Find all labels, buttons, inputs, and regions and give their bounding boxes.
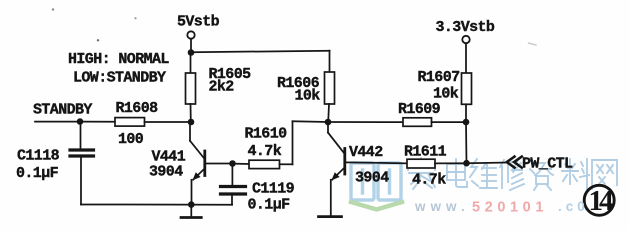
- PW_CTL input chevrons: [507, 157, 522, 168]
- svg-text:STANDBY: STANDBY: [33, 101, 92, 118]
- watermark circled 14: [584, 185, 614, 215]
- svg-text:R1609: R1609: [398, 101, 441, 118]
- wire STANDBY line: [35, 121, 80, 123]
- node A (5V rail junction): [188, 49, 195, 56]
- svg-text:520101: 520101: [472, 200, 548, 216]
- node STANDBY junction: [77, 118, 84, 125]
- wire 5V top rail: [191, 51, 330, 53]
- svg-text:3904: 3904: [149, 164, 183, 181]
- resistor R1610: [233, 121, 329, 168]
- resistor R1609: [403, 118, 432, 127]
- svg-text:V442: V442: [349, 144, 383, 161]
- svg-text:14: 14: [589, 185, 614, 217]
- svg-text:3904: 3904: [355, 169, 389, 186]
- resistor R1605: [186, 53, 196, 123]
- watermark char 资: [530, 161, 553, 190]
- svg-text:R1610: R1610: [245, 126, 288, 143]
- resistor R1611: [407, 159, 467, 168]
- power terminal 5Vstb: [187, 31, 194, 52]
- watermark char 维: [470, 159, 497, 188]
- watermark logo open book: [351, 163, 401, 200]
- svg-text:4.7k: 4.7k: [248, 143, 282, 160]
- svg-text:2k2: 2k2: [209, 79, 235, 96]
- scan speck 4: [52, 8, 54, 10]
- resistor R1607: [462, 73, 472, 122]
- watermark char 网: [592, 160, 617, 189]
- wire STANDBY junction to R1608: [80, 121, 115, 123]
- svg-text:C1119: C1119: [252, 181, 295, 198]
- wire E1 to E2: [465, 122, 468, 163]
- watermark char 修: [500, 160, 524, 190]
- capacitor C1119: [221, 164, 246, 205]
- svg-text:0.1μF: 0.1μF: [248, 197, 291, 214]
- capacitor C1118: [70, 122, 94, 205]
- node B (V441 collector): [188, 119, 195, 126]
- ground (V441): [181, 205, 201, 218]
- resistor R1608: [115, 118, 145, 127]
- node C (V441 base / C1119): [229, 160, 236, 167]
- svg-text:3.3Vstb: 3.3Vstb: [436, 19, 495, 36]
- wire bottom rail: [81, 204, 232, 206]
- ground (V442): [319, 215, 342, 218]
- svg-text:.c0: .c0: [558, 199, 589, 214]
- watermark logo green swoosh: [351, 202, 402, 210]
- svg-text:HIGH: NORMAL: HIGH: NORMAL: [68, 51, 169, 68]
- scan speck 1: [529, 43, 537, 45]
- scan speck 2: [97, 39, 99, 41]
- node E1 (R1607/R1609): [463, 119, 470, 126]
- transistor V442: [328, 122, 345, 216]
- resistor R1606: [325, 51, 335, 122]
- node emitter/rail junction: [188, 201, 195, 208]
- svg-text:5Vstb: 5Vstb: [177, 14, 220, 31]
- svg-text:100: 100: [118, 131, 144, 148]
- wire PW_CTL: [467, 162, 509, 165]
- wire V442 base: [346, 161, 407, 164]
- svg-text:www.: www.: [414, 199, 470, 214]
- svg-text:10k: 10k: [433, 85, 459, 102]
- node E2 (PW_CTL net): [463, 160, 470, 167]
- svg-text:4.7k: 4.7k: [412, 172, 446, 189]
- wire V441 base: [206, 163, 233, 165]
- svg-text:PW_CTL: PW_CTL: [522, 155, 573, 172]
- wire node D to R1609: [328, 121, 403, 123]
- transistor V441: [190, 122, 205, 205]
- node D (V442 collector): [325, 119, 332, 126]
- svg-text:R1611: R1611: [404, 143, 447, 160]
- svg-text:C1118: C1118: [17, 148, 60, 165]
- watermark char 家: [408, 158, 435, 189]
- svg-text:R1608: R1608: [116, 100, 159, 117]
- watermark char 电: [447, 159, 467, 187]
- wire R1609 to node E1: [432, 121, 467, 123]
- wire R1608 to node B: [145, 121, 192, 123]
- scan speck 3: [134, 17, 136, 19]
- svg-text:0.1μF: 0.1μF: [16, 165, 59, 182]
- svg-text:10k: 10k: [295, 88, 321, 105]
- power terminal 3.3Vstb: [462, 36, 469, 73]
- watermark char 料: [562, 159, 589, 189]
- svg-text:LOW:STANDBY: LOW:STANDBY: [73, 69, 166, 86]
- svg-text:R1607: R1607: [418, 69, 460, 86]
